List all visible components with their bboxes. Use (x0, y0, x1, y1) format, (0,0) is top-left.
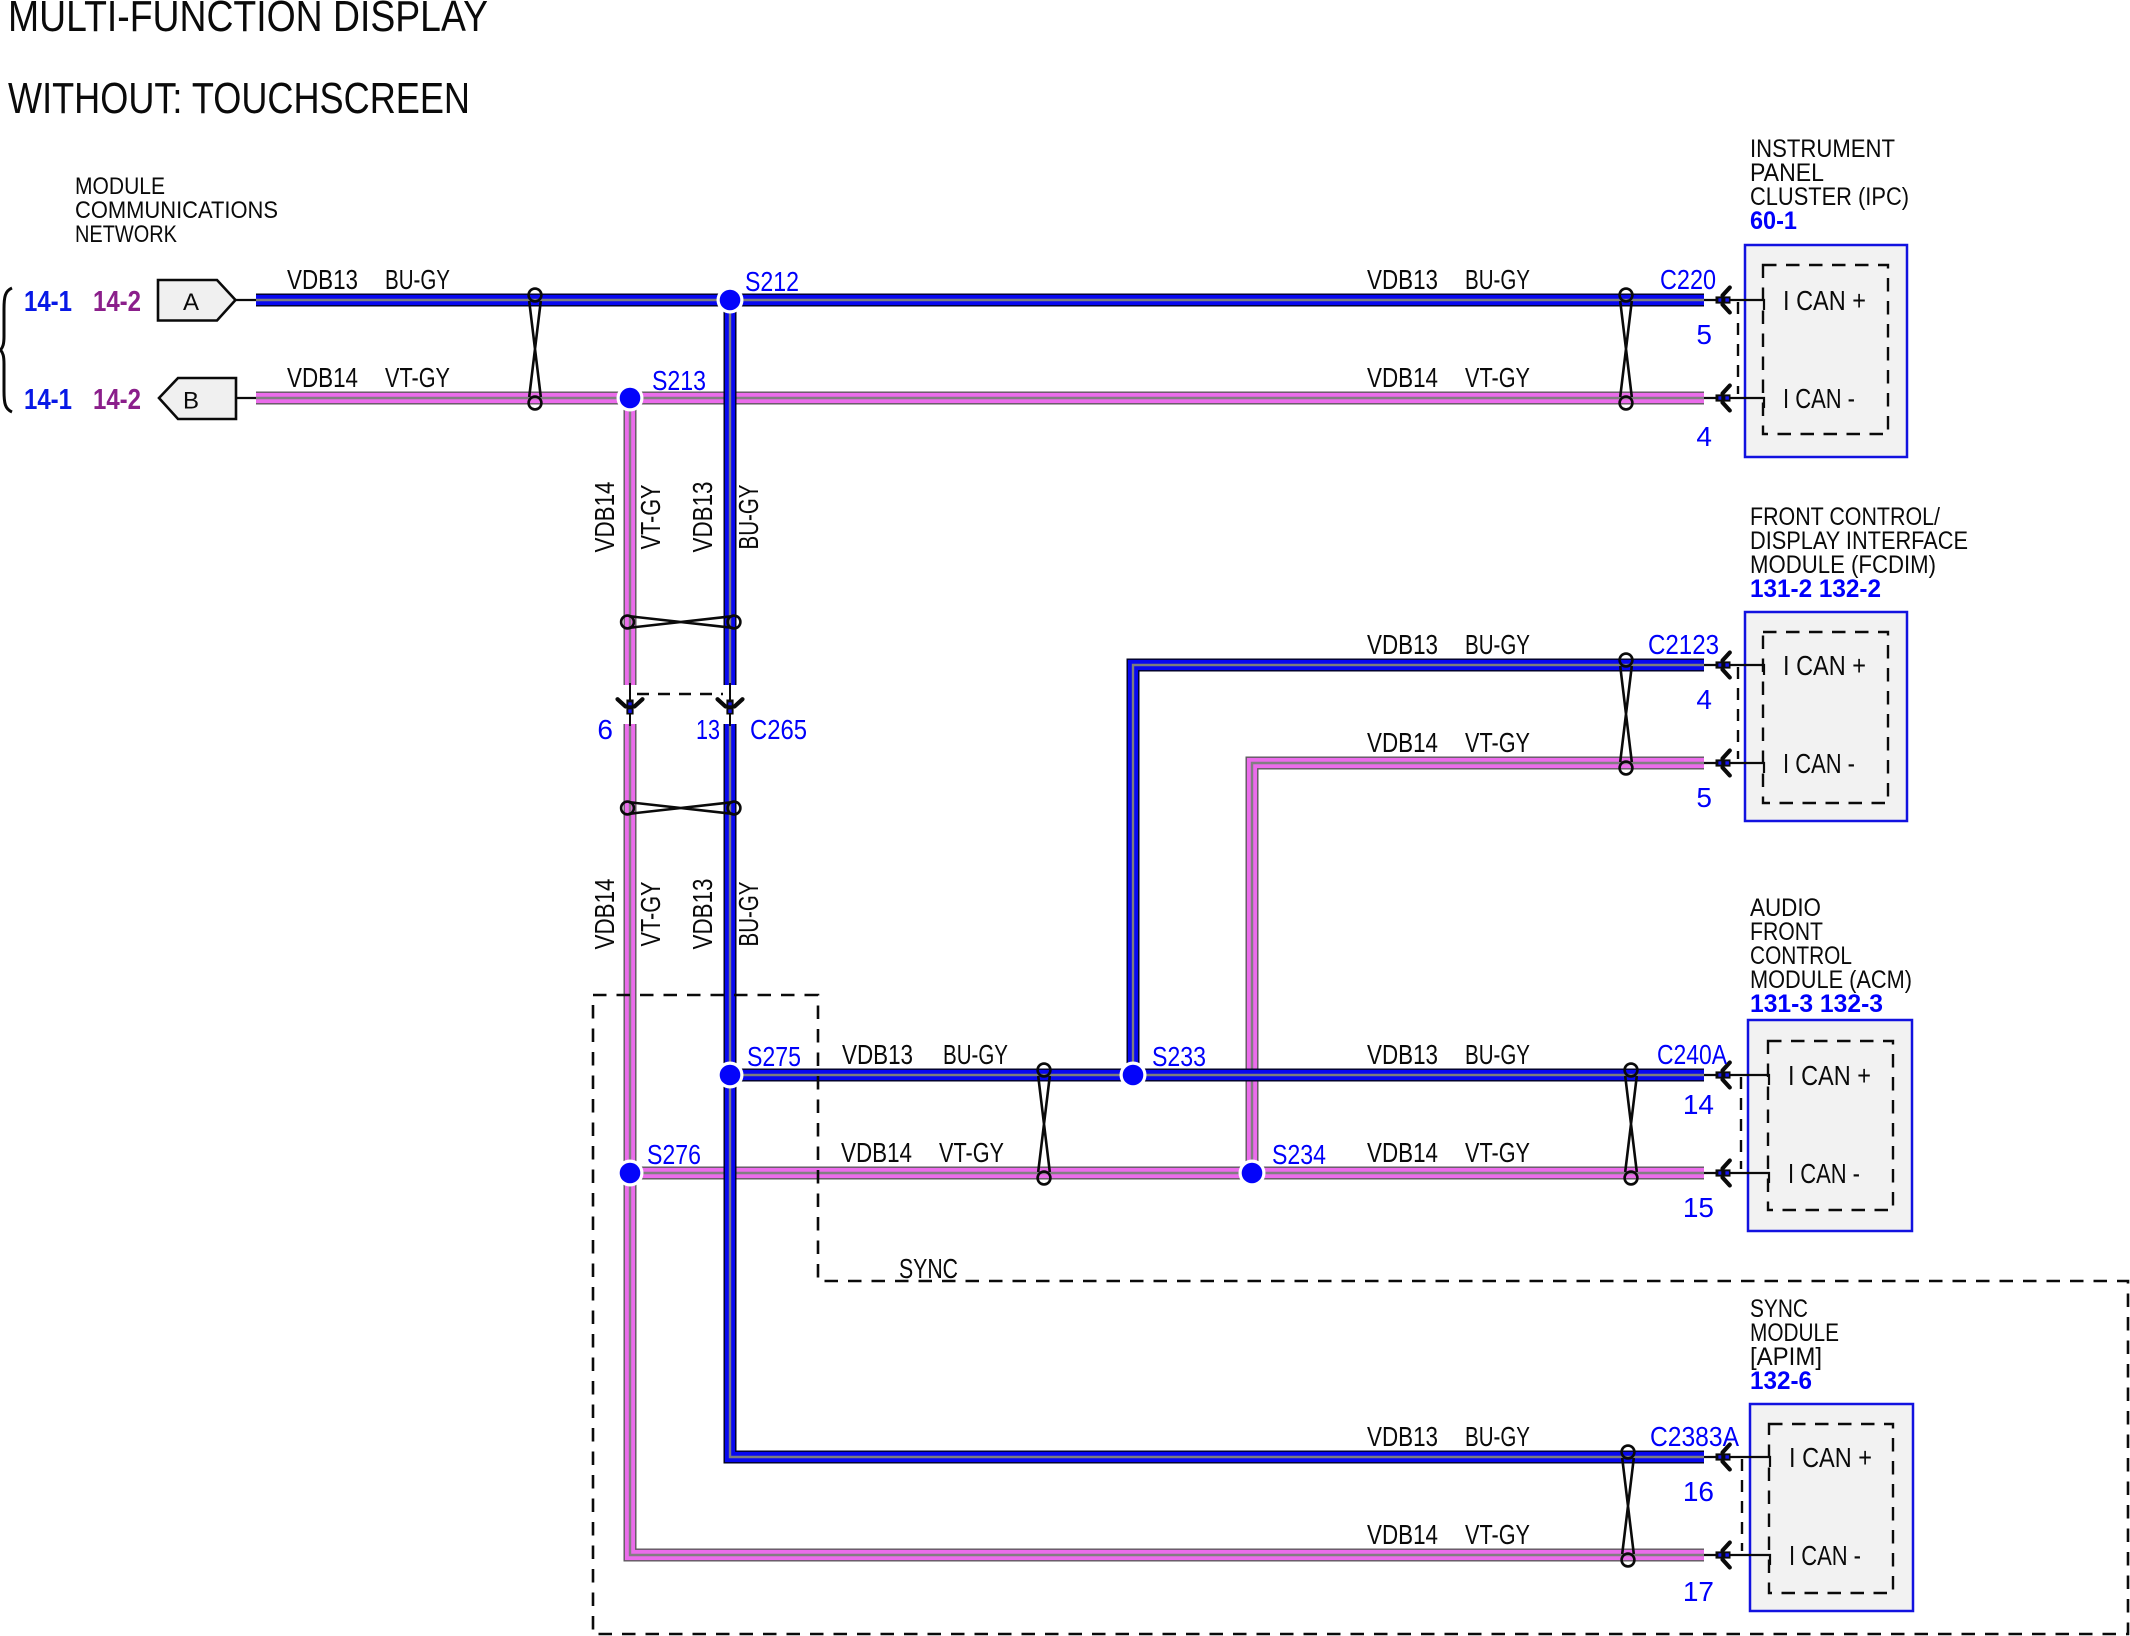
svg-text:BU-GY: BU-GY (1465, 264, 1530, 295)
splice S276 (617, 1160, 644, 1187)
svg-text:5: 5 (1696, 319, 1712, 350)
svg-text:MODULE: MODULE (75, 173, 165, 200)
svg-text:VDB14: VDB14 (287, 362, 358, 393)
ACM connector face dashed line (1740, 1077, 1742, 1169)
wire VDB13 vertical lower segment (C265 through S275 to APIM) (730, 724, 1704, 1457)
twisted pair symbol (APIM branch) (1622, 1446, 1635, 1567)
connector A (158, 280, 256, 321)
svg-text:VDB13: VDB13 (687, 482, 718, 553)
svg-text:4: 4 (1696, 421, 1712, 452)
svg-text:VT-GY: VT-GY (1465, 362, 1530, 393)
svg-text:VT-GY: VT-GY (1465, 1519, 1530, 1550)
svg-text:C240A: C240A (1657, 1039, 1727, 1070)
twisted pair symbol (top bus, near IPC) (1620, 289, 1633, 410)
svg-text:C220: C220 (1660, 264, 1716, 295)
wire value label VDB13 BU-GY (vertical, lower) (687, 879, 764, 950)
svg-text:I CAN -: I CAN - (1789, 1540, 1861, 1571)
IPC pin 4 terminal (I CAN -) (1704, 386, 1764, 411)
svg-text:VDB14: VDB14 (589, 879, 620, 950)
wire VDB13 ACM branch (S275 to ACM pin 14) (730, 1069, 1704, 1082)
svg-text:COMMUNICATIONS: COMMUNICATIONS (75, 197, 278, 224)
svg-text:S234: S234 (1272, 1139, 1326, 1170)
svg-text:I CAN -: I CAN - (1783, 748, 1855, 779)
svg-text:NETWORK: NETWORK (75, 221, 178, 248)
wire VDB14 ACM branch (S276 to ACM pin 15) (630, 1167, 1704, 1180)
svg-text:131-3 132-3: 131-3 132-3 (1750, 990, 1883, 1018)
wire VDB14 vertical upper segment (S213 to C265) (624, 398, 637, 685)
svg-text:I CAN +: I CAN + (1789, 1442, 1872, 1473)
splice S275 (717, 1062, 744, 1089)
wire value label VDB14 VT-GY (FCDIM branch) (1367, 727, 1530, 758)
wire VDB14 VT-GY top bus (B row) (256, 392, 1704, 405)
svg-text:BU-GY: BU-GY (385, 264, 450, 295)
svg-text:VT-GY: VT-GY (939, 1137, 1004, 1168)
module U4 SYNC MODULE [APIM] (1750, 1295, 1913, 1611)
wire VDB14 vertical lower segment (C265 through S276 to APIM) (630, 724, 1704, 1555)
wire VDB13 BU-GY top bus (A row) (256, 294, 1704, 307)
svg-text:S233: S233 (1152, 1041, 1206, 1072)
module communications network label (75, 173, 278, 248)
svg-text:17: 17 (1683, 1576, 1714, 1607)
svg-text:VDB14: VDB14 (1367, 1137, 1438, 1168)
twisted pair symbol (vertical pair, below C265) (621, 802, 740, 815)
svg-text:14: 14 (1683, 1089, 1714, 1120)
svg-text:132-6: 132-6 (1750, 1367, 1812, 1395)
splice S213 (617, 385, 644, 412)
module U2 FRONT CONTROL/DISPLAY INTERFACE MODULE (FCDIM) (1745, 503, 1968, 821)
svg-text:4: 4 (1696, 684, 1712, 715)
svg-text:C265: C265 (750, 714, 807, 745)
wire value label VDB13 BU-GY (vertical, upper) (687, 482, 764, 553)
svg-text:BU-GY: BU-GY (1465, 1039, 1530, 1070)
svg-text:S213: S213 (652, 365, 706, 396)
SYNC harness dashed boundary (593, 995, 2128, 1634)
svg-text:I CAN +: I CAN + (1783, 650, 1866, 681)
svg-text:I CAN -: I CAN - (1788, 1158, 1860, 1189)
wire value label VDB13 BU-GY (ACM branch right) (1367, 1039, 1530, 1070)
APIM connector face dashed line (1741, 1459, 1743, 1551)
IPC connector face dashed line (1737, 302, 1739, 394)
svg-text:VT-GY: VT-GY (635, 881, 666, 946)
connector B (159, 378, 256, 419)
wire value label VDB13 BU-GY (APIM branch) (1367, 1421, 1530, 1452)
svg-text:VDB13: VDB13 (842, 1039, 913, 1070)
splice S233 (1120, 1062, 1147, 1089)
svg-text:VDB13: VDB13 (1367, 1039, 1438, 1070)
svg-text:5: 5 (1696, 782, 1712, 813)
svg-text:VDB13: VDB13 (1367, 264, 1438, 295)
ACM pin 14 terminal (I CAN +) (1704, 1063, 1769, 1088)
svg-text:BU-GY: BU-GY (733, 881, 764, 946)
ACM pin 15 terminal (I CAN -) (1704, 1161, 1769, 1186)
svg-text:MULTI-FUNCTION DISPLAY: MULTI-FUNCTION DISPLAY (8, 0, 488, 41)
APIM pin 16 terminal (I CAN +) (1704, 1445, 1770, 1470)
svg-text:C2123: C2123 (1648, 629, 1719, 660)
svg-text:VT-GY: VT-GY (1465, 727, 1530, 758)
module U3 AUDIO FRONT CONTROL MODULE (ACM) (1748, 894, 1912, 1231)
svg-text:I CAN +: I CAN + (1788, 1060, 1871, 1091)
twisted pair symbol (top bus, left) (529, 289, 542, 410)
svg-text:14-2: 14-2 (93, 384, 141, 416)
FCDIM connector face dashed line (1737, 667, 1739, 759)
svg-text:14-1: 14-1 (24, 286, 72, 318)
svg-text:VT-GY: VT-GY (635, 484, 666, 549)
svg-text:BU-GY: BU-GY (1465, 1421, 1530, 1452)
svg-text:BU-GY: BU-GY (733, 484, 764, 549)
inline connector C265 (618, 683, 743, 726)
FCDIM pin 4 terminal (I CAN +) (1704, 653, 1764, 678)
splice S212 (717, 287, 744, 314)
svg-text:VDB14: VDB14 (589, 482, 620, 553)
wire value label VDB14 VT-GY (top bus right) (1367, 362, 1530, 393)
svg-text:SYNC: SYNC (899, 1253, 958, 1284)
svg-text:14-1: 14-1 (24, 384, 72, 416)
svg-text:15: 15 (1683, 1192, 1714, 1223)
svg-text:13: 13 (696, 714, 720, 745)
module U1 INSTRUMENT PANEL CLUSTER (IPC) (1745, 135, 1909, 457)
wire VDB13 vertical upper segment (S212 to C265) (724, 300, 737, 685)
svg-text:VDB13: VDB13 (1367, 629, 1438, 660)
svg-text:131-2 132-2: 131-2 132-2 (1750, 575, 1881, 603)
svg-text:S275: S275 (747, 1041, 801, 1072)
svg-text:VDB13: VDB13 (1367, 1421, 1438, 1452)
wire value label VDB14 VT-GY (APIM branch) (1367, 1519, 1530, 1550)
svg-text:VDB14: VDB14 (1367, 362, 1438, 393)
svg-text:VT-GY: VT-GY (1465, 1137, 1530, 1168)
svg-text:14-2: 14-2 (93, 286, 141, 318)
svg-text:S276: S276 (647, 1139, 701, 1170)
wire value label VDB13 BU-GY (top bus left) (287, 264, 450, 295)
twisted pair symbol (FCDIM branch) (1620, 654, 1633, 775)
svg-text:C2383A: C2383A (1650, 1421, 1739, 1452)
svg-text:I CAN -: I CAN - (1783, 383, 1855, 414)
FCDIM pin 5 terminal (I CAN -) (1704, 751, 1764, 776)
wire value label VDB13 BU-GY (ACM branch left) (842, 1039, 1008, 1070)
svg-text:60-1: 60-1 (1750, 207, 1797, 235)
brace (1, 288, 13, 412)
svg-text:VDB14: VDB14 (1367, 727, 1438, 758)
svg-text:VDB13: VDB13 (687, 879, 718, 950)
wire value label VDB14 VT-GY (top bus left) (287, 362, 450, 393)
svg-text:VT-GY: VT-GY (385, 362, 450, 393)
twisted pair symbol (vertical pair, above C265) (621, 616, 740, 629)
wire VDB14 FCDIM branch (FCDIM pin 5 to S234) (1252, 763, 1704, 1173)
svg-text:BU-GY: BU-GY (1465, 629, 1530, 660)
splice S234 (1239, 1160, 1266, 1187)
svg-text:I CAN +: I CAN + (1783, 285, 1866, 316)
svg-text:BU-GY: BU-GY (943, 1039, 1008, 1070)
svg-text:B: B (183, 388, 199, 415)
svg-text:WITHOUT: TOUCHSCREEN: WITHOUT: TOUCHSCREEN (8, 74, 470, 123)
twisted pair symbol (ACM branch, near module) (1625, 1064, 1638, 1185)
svg-text:6: 6 (597, 714, 613, 745)
IPC pin 5 terminal (I CAN +) (1704, 288, 1764, 313)
APIM pin 17 terminal (I CAN -) (1704, 1543, 1770, 1568)
wire value label VDB14 VT-GY (ACM branch left) (841, 1137, 1004, 1168)
wire value label VDB14 VT-GY (ACM branch right) (1367, 1137, 1530, 1168)
twisted pair symbol (ACM branch, middle) (1038, 1064, 1051, 1185)
svg-text:16: 16 (1683, 1476, 1714, 1507)
svg-text:VDB14: VDB14 (841, 1137, 912, 1168)
svg-text:VDB14: VDB14 (1367, 1519, 1438, 1550)
svg-text:A: A (183, 289, 199, 316)
wire value label VDB14 VT-GY (vertical, lower) (589, 879, 666, 950)
wire value label VDB13 BU-GY (top bus right) (1367, 264, 1530, 295)
wire VDB13 FCDIM branch (FCDIM pin 4 to S233) (1133, 665, 1704, 1075)
svg-text:VDB13: VDB13 (287, 264, 358, 295)
wire value label VDB14 VT-GY (vertical, upper) (589, 482, 666, 553)
wire value label VDB13 BU-GY (FCDIM branch) (1367, 629, 1530, 660)
svg-text:S212: S212 (745, 266, 799, 297)
